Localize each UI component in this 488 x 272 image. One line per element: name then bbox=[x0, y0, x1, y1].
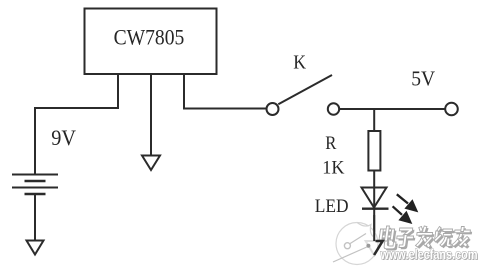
svg-text:CW7805: CW7805 bbox=[114, 25, 185, 50]
svg-text:5V: 5V bbox=[411, 68, 435, 91]
svg-text:LED: LED bbox=[315, 195, 349, 216]
svg-text:1K: 1K bbox=[322, 157, 345, 179]
svg-text:www.elecfans.com: www.elecfans.com bbox=[380, 247, 478, 262]
svg-text:R: R bbox=[325, 132, 336, 153]
svg-text:K: K bbox=[293, 52, 306, 74]
svg-text:9V: 9V bbox=[51, 125, 76, 150]
